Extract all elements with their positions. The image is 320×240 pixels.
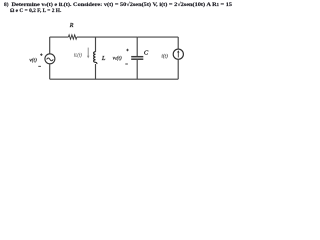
voltage source V (AC) xyxy=(45,54,55,64)
svg-text:L: L xyxy=(101,55,106,62)
wire: capacitor branch bottom xyxy=(136,60,138,79)
wire: right branch below current source xyxy=(177,59,179,79)
capacitor C plates xyxy=(131,57,143,60)
resistor R xyxy=(68,35,77,39)
wire: left branch above voltage source xyxy=(49,37,51,54)
wire: top segment resistor to inductor node xyxy=(77,36,96,38)
wire: right branch above current source xyxy=(177,37,179,49)
svg-text:8): 8) xyxy=(4,1,9,8)
wire: capacitor branch top xyxy=(136,37,138,56)
wire: top segment inductor node to capacitor node xyxy=(96,36,138,38)
svg-text:i(t): i(t) xyxy=(161,53,168,60)
svg-text:vc(t): vc(t) xyxy=(113,54,122,61)
wire: inductor branch bottom xyxy=(95,64,97,79)
svg-text:Determine vc(t) e iL(t). Consi: Determine vc(t) e iL(t). Considere: v(t)… xyxy=(12,1,233,8)
wire: inductor branch top xyxy=(95,37,97,52)
svg-text:v(t): v(t) xyxy=(29,56,37,63)
wire: top segment capacitor node to current source xyxy=(137,36,178,38)
polarity minus of voltage source xyxy=(38,65,41,67)
wire: left branch below voltage source xyxy=(49,64,51,79)
svg-text:Ω e C = 0,2 F, L = 2 H.: Ω e C = 0,2 F, L = 2 H. xyxy=(10,8,62,14)
wire: top-left segment (source top to resistor) xyxy=(50,36,69,38)
current arrow iL down xyxy=(87,48,90,59)
svg-text:iL(t): iL(t) xyxy=(74,54,82,59)
polarity plus of vc xyxy=(126,49,129,52)
current source I xyxy=(173,49,183,59)
inductor L coil xyxy=(94,52,97,64)
wire: bottom rail xyxy=(50,78,179,80)
polarity plus of voltage source xyxy=(40,53,43,56)
svg-text:R: R xyxy=(69,23,74,29)
svg-text:C: C xyxy=(144,50,149,57)
polarity minus of vc xyxy=(125,63,128,65)
